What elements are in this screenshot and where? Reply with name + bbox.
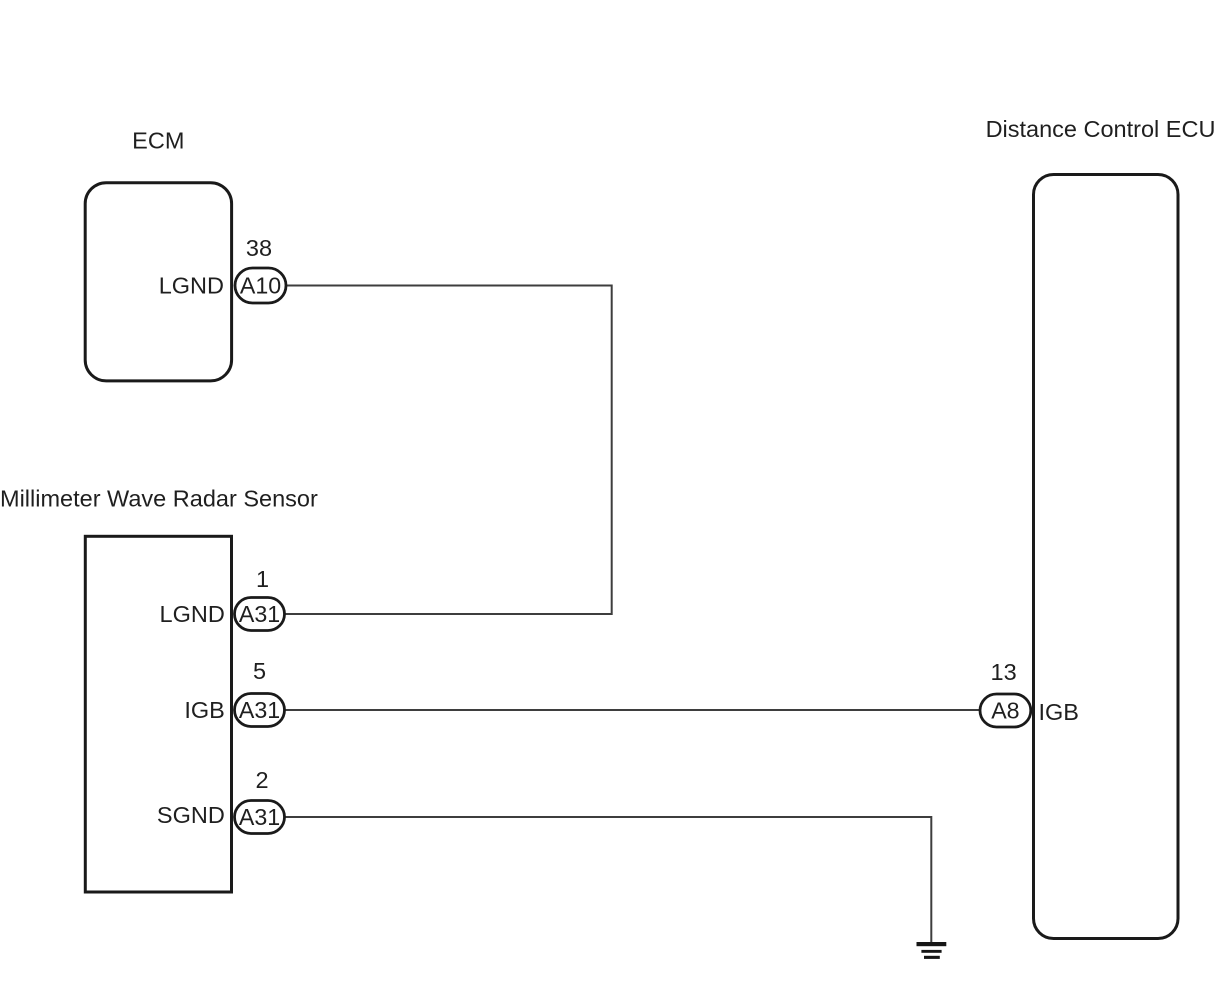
svg-text:SGND: SGND xyxy=(157,802,225,828)
svg-text:A31: A31 xyxy=(239,601,280,627)
svg-text:IGB: IGB xyxy=(1039,699,1079,725)
svg-text:1: 1 xyxy=(256,566,269,592)
svg-text:A31: A31 xyxy=(239,804,280,830)
svg-text:ECM: ECM xyxy=(132,128,184,154)
svg-text:IGB: IGB xyxy=(184,697,224,723)
svg-text:38: 38 xyxy=(246,235,272,261)
svg-text:A10: A10 xyxy=(240,273,281,299)
svg-text:Distance Control ECU: Distance Control ECU xyxy=(986,116,1216,142)
svg-text:2: 2 xyxy=(255,767,268,793)
svg-text:A31: A31 xyxy=(239,697,280,723)
svg-text:LGND: LGND xyxy=(159,273,224,299)
svg-text:A8: A8 xyxy=(991,698,1019,724)
svg-text:13: 13 xyxy=(991,659,1017,685)
svg-text:Millimeter Wave Radar Sensor: Millimeter Wave Radar Sensor xyxy=(0,486,318,512)
svg-text:5: 5 xyxy=(253,658,266,684)
svg-text:LGND: LGND xyxy=(160,601,225,627)
